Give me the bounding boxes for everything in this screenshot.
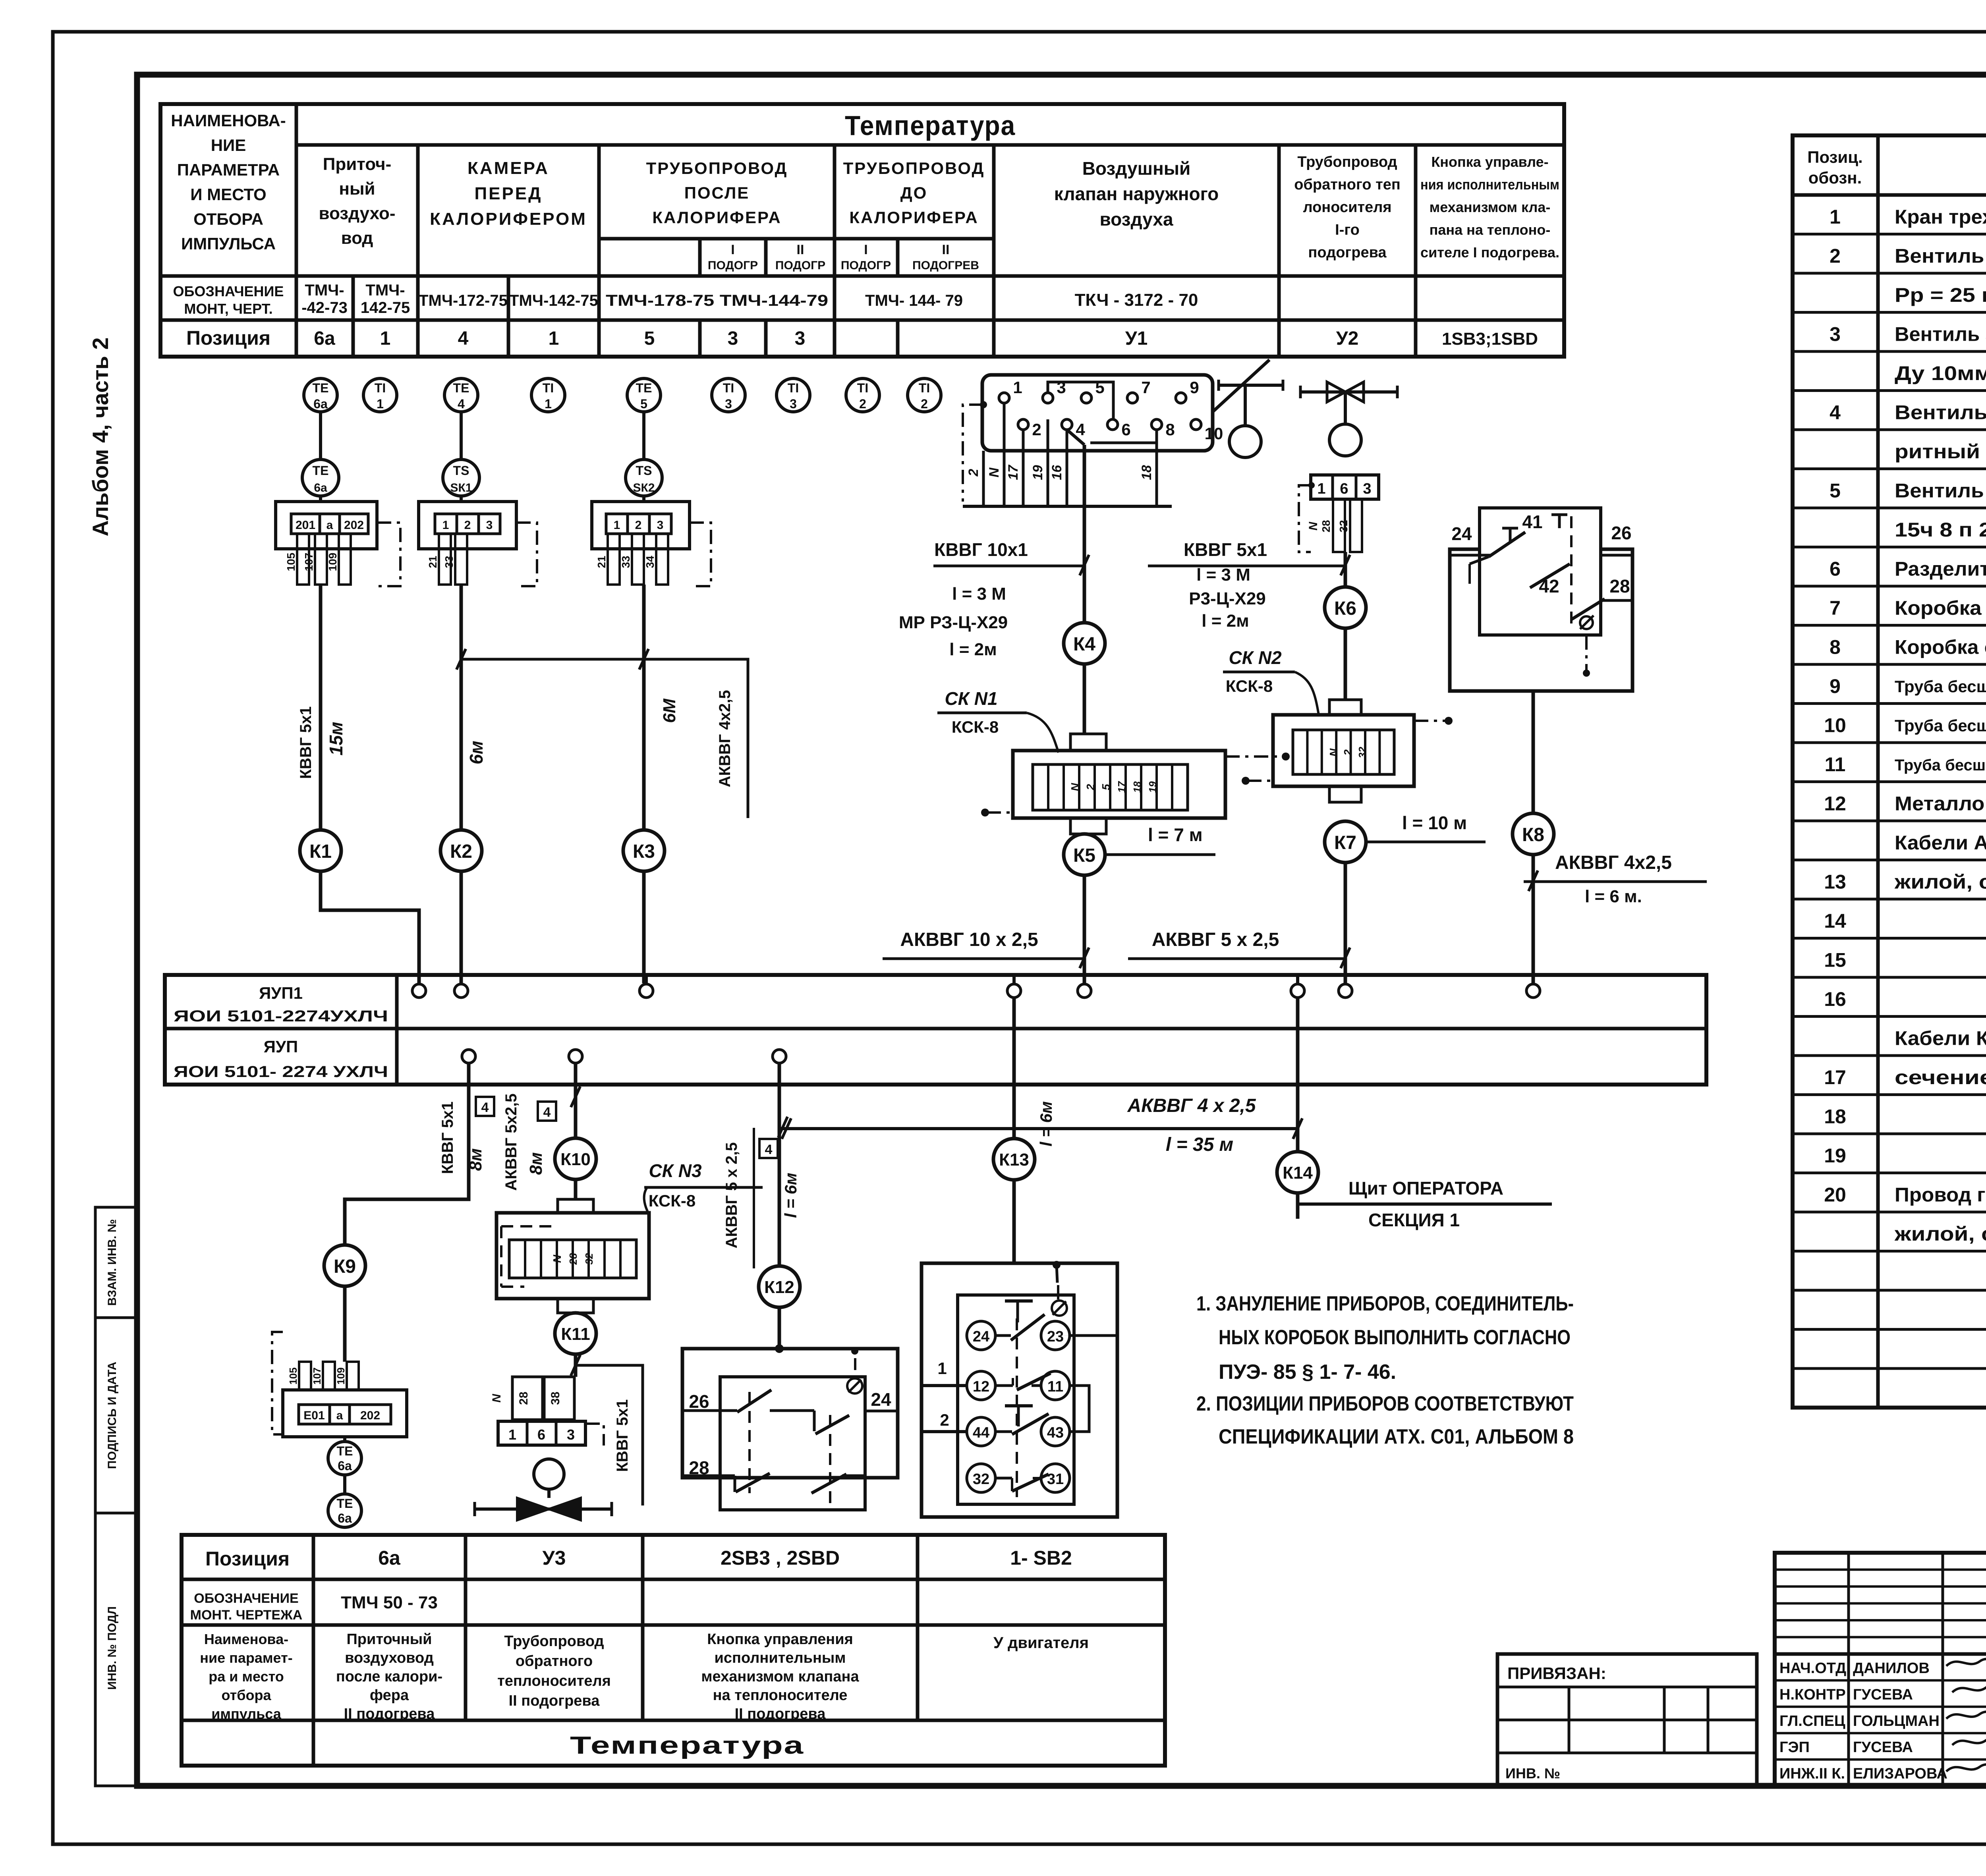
svg-text:l = 6м: l = 6м bbox=[1037, 1101, 1055, 1146]
cable circle K7 bbox=[1325, 821, 1366, 863]
svg-text:11: 11 bbox=[1825, 753, 1846, 776]
svg-text:4: 4 bbox=[1830, 401, 1841, 424]
svg-text:И МЕСТО: И МЕСТО bbox=[190, 185, 266, 204]
svg-text:8: 8 bbox=[1830, 636, 1841, 658]
svg-text:N: N bbox=[987, 467, 1002, 477]
svg-text:N: N bbox=[1069, 783, 1081, 791]
svg-text:1: 1 bbox=[545, 397, 552, 411]
svg-text:107: 107 bbox=[303, 553, 315, 571]
instrument ТI-1 bbox=[363, 378, 397, 412]
valve actuator circle bbox=[1329, 424, 1361, 456]
junction box SK N3 bbox=[558, 1199, 593, 1213]
svg-text:6а: 6а bbox=[313, 397, 328, 411]
svg-text:Приточ-: Приточ- bbox=[323, 154, 392, 174]
contact pin lines K8 box bbox=[1450, 554, 1490, 557]
svg-text:3: 3 bbox=[790, 397, 797, 411]
svg-text:КСК-8: КСК-8 bbox=[1226, 677, 1273, 695]
svg-text:ТI: ТI bbox=[919, 381, 930, 395]
svg-text:ТЕ: ТЕ bbox=[337, 1496, 353, 1511]
svg-text:воздухо-: воздухо- bbox=[319, 204, 395, 223]
svg-text:24: 24 bbox=[871, 1389, 891, 1410]
svg-text:Трубопровод: Трубопровод bbox=[1297, 154, 1397, 170]
instrument ТI-1 bbox=[531, 378, 565, 412]
transmitter ТS-SК2 bbox=[626, 459, 662, 496]
svg-text:ИНЖ.II К.: ИНЖ.II К. bbox=[1779, 1766, 1845, 1782]
svg-text:33: 33 bbox=[620, 556, 632, 568]
instrument ТЕ-5 bbox=[627, 378, 661, 412]
svg-text:ЕЛИЗАРОВА: ЕЛИЗАРОВА bbox=[1853, 1766, 1947, 1782]
instrument ТЕ-4 bbox=[444, 378, 478, 412]
svg-text:6а: 6а bbox=[314, 328, 335, 349]
svg-text:ТS: ТS bbox=[636, 463, 652, 478]
svg-text:11: 11 bbox=[1047, 1378, 1063, 1395]
svg-text:Коробка соединительная КСК-: Коробка соединительная КСК-16. bbox=[1895, 636, 1986, 658]
specification table grid bbox=[1793, 135, 1986, 1408]
cable circle K2 bbox=[440, 830, 482, 871]
svg-text:1SB3;1SBD: 1SB3;1SBD bbox=[1442, 329, 1538, 349]
svg-text:АКВВГ 4х2,5: АКВВГ 4х2,5 bbox=[716, 690, 734, 787]
cable link to operator panel bbox=[779, 1127, 1298, 1130]
title block attach table bbox=[1497, 1654, 1757, 1786]
svg-text:КАЛОРИФЕРА: КАЛОРИФЕРА bbox=[849, 208, 978, 227]
svg-text:201: 201 bbox=[296, 519, 315, 532]
svg-text:НАИМЕНОВА-: НАИМЕНОВА- bbox=[171, 111, 286, 130]
svg-text:12: 12 bbox=[973, 1378, 989, 1395]
svg-text:15ч 8 п 2.: 15ч 8 п 2. bbox=[1895, 519, 1986, 541]
svg-text:12: 12 bbox=[1824, 793, 1846, 815]
svg-text:К14: К14 bbox=[1283, 1163, 1313, 1183]
svg-text:9: 9 bbox=[1830, 675, 1841, 697]
svg-text:14: 14 bbox=[1824, 910, 1846, 932]
pushbutton contact box (K8 chain) bbox=[1450, 549, 1632, 691]
svg-text:4: 4 bbox=[458, 397, 465, 411]
svg-text:N: N bbox=[1327, 748, 1340, 757]
wire K7 to panel bbox=[1344, 863, 1347, 983]
svg-text:19: 19 bbox=[1030, 465, 1045, 480]
cable circle K9 bbox=[324, 1245, 365, 1286]
svg-text:ТМЧ-172-75: ТМЧ-172-75 bbox=[419, 292, 508, 309]
panel bus box bbox=[165, 975, 1706, 1085]
svg-text:2: 2 bbox=[1032, 420, 1041, 439]
cable circle K6 bbox=[1325, 587, 1366, 628]
svg-text:Кнопка управления: Кнопка управления bbox=[707, 1631, 853, 1648]
svg-text:17: 17 bbox=[1116, 781, 1128, 793]
svg-text:ПОДОГР: ПОДОГР bbox=[775, 259, 825, 272]
svg-text:6: 6 bbox=[1340, 481, 1348, 497]
wire number square K9 bbox=[476, 1097, 494, 1116]
instrument ТI-2 bbox=[908, 378, 941, 412]
svg-text:Ду 10мм, Рр = 1кгс/см², 156: Ду 10мм, Рр = 1кгс/см², 15650р -3М bbox=[1895, 362, 1986, 384]
svg-text:5: 5 bbox=[1830, 480, 1841, 502]
svg-text:У двигателя: У двигателя bbox=[993, 1634, 1089, 1652]
svg-text:Разделитель мембранный РМ531: Разделитель мембранный РМ5319, bbox=[1895, 558, 1986, 580]
svg-text:7: 7 bbox=[1141, 378, 1150, 397]
svg-text:клапан наружного: клапан наружного bbox=[1054, 183, 1219, 204]
svg-text:ра и место: ра и место bbox=[209, 1668, 284, 1685]
svg-text:ПОДОГРЕВ: ПОДОГРЕВ bbox=[912, 259, 979, 272]
svg-text:ЯОИ 5101- 2274 УХЛЧ: ЯОИ 5101- 2274 УХЛЧ bbox=[174, 1063, 388, 1081]
svg-text:ТI: ТI bbox=[375, 381, 386, 395]
svg-text:105: 105 bbox=[285, 553, 297, 571]
circled pins K13 box bbox=[967, 1321, 995, 1350]
wire K4 bbox=[1083, 445, 1086, 623]
wire K10 chain from panel bbox=[574, 1063, 578, 1138]
svg-text:142-75: 142-75 bbox=[361, 299, 410, 317]
svg-text:К12: К12 bbox=[764, 1278, 794, 1297]
svg-text:1: 1 bbox=[377, 397, 384, 411]
svg-text:К8: К8 bbox=[1522, 824, 1544, 845]
svg-text:К2: К2 bbox=[450, 841, 472, 862]
svg-text:24: 24 bbox=[1451, 523, 1472, 544]
svg-text:21: 21 bbox=[427, 556, 439, 568]
svg-text:1: 1 bbox=[508, 1426, 516, 1443]
svg-text:2. ПОЗИЦИИ ПРИБОРОВ СООТВЕТ: 2. ПОЗИЦИИ ПРИБОРОВ СООТВЕТСТВУЮТ bbox=[1196, 1392, 1574, 1415]
svg-text:ния исполнительным: ния исполнительным bbox=[1420, 176, 1559, 193]
svg-text:4: 4 bbox=[1076, 420, 1085, 439]
cable circle K10 bbox=[555, 1138, 596, 1179]
svg-text:ТЕ: ТЕ bbox=[313, 381, 329, 395]
svg-text:К1: К1 bbox=[309, 841, 332, 862]
K13 box right links bbox=[1070, 1334, 1117, 1337]
svg-text:Температура: Температура bbox=[845, 110, 1016, 141]
svg-text:26: 26 bbox=[689, 1391, 709, 1412]
svg-text:1: 1 bbox=[549, 328, 559, 349]
svg-text:ПЕРЕД: ПЕРЕД bbox=[474, 184, 542, 203]
svg-text:l = 7 м: l = 7 м bbox=[1148, 824, 1203, 845]
svg-text:II подогрева: II подогрева bbox=[344, 1706, 435, 1722]
svg-text:l = 2м: l = 2м bbox=[949, 640, 997, 659]
svg-text:6а: 6а bbox=[378, 1547, 401, 1569]
svg-text:ОТБОРА: ОТБОРА bbox=[193, 210, 263, 228]
svg-text:2: 2 bbox=[921, 397, 928, 411]
svg-text:ВЗАМ. ИНВ. №: ВЗАМ. ИНВ. № bbox=[106, 1219, 119, 1306]
svg-text:I: I bbox=[731, 242, 734, 257]
svg-text:ГОЛЬЦМАН: ГОЛЬЦМАН bbox=[1853, 1713, 1940, 1729]
svg-text:2: 2 bbox=[464, 519, 471, 532]
svg-text:обратного теп: обратного теп bbox=[1294, 176, 1401, 193]
svg-text:АКВВГ 5 х 2,5: АКВВГ 5 х 2,5 bbox=[1152, 929, 1279, 950]
svg-text:обозн.: обозн. bbox=[1808, 168, 1862, 187]
svg-text:АКВВГ 4х2,5: АКВВГ 4х2,5 bbox=[1555, 852, 1672, 873]
svg-text:I-го: I-го bbox=[1335, 222, 1360, 238]
earth circle in K8 box bbox=[1580, 616, 1593, 629]
bottom parameter table grid bbox=[182, 1535, 1165, 1766]
svg-text:6: 6 bbox=[1830, 558, 1841, 580]
svg-text:33: 33 bbox=[443, 556, 455, 568]
instrument ТI-3 bbox=[712, 378, 745, 412]
svg-text:109: 109 bbox=[326, 553, 339, 571]
svg-text:6а: 6а bbox=[338, 1459, 352, 1473]
svg-text:5: 5 bbox=[644, 328, 655, 349]
svg-text:ПОСЛЕ: ПОСЛЕ bbox=[684, 183, 750, 202]
svg-text:4: 4 bbox=[481, 1100, 489, 1115]
svg-text:6а: 6а bbox=[314, 481, 327, 494]
cable circle K13 bbox=[993, 1139, 1035, 1180]
svg-text:Кнопка управле-: Кнопка управле- bbox=[1431, 154, 1548, 170]
svg-text:Позиция: Позиция bbox=[205, 1548, 290, 1570]
svg-text:КСК-8: КСК-8 bbox=[952, 718, 999, 736]
svg-text:32: 32 bbox=[583, 1253, 595, 1264]
sensor TE-6a lower 2 bbox=[343, 1475, 346, 1494]
svg-text:32: 32 bbox=[973, 1471, 989, 1488]
svg-text:импульса: импульса bbox=[211, 1706, 282, 1722]
svg-text:АКВВГ 10 х 2,5: АКВВГ 10 х 2,5 bbox=[900, 929, 1038, 950]
svg-text:КВВГ 5х1: КВВГ 5х1 bbox=[1184, 539, 1267, 560]
svg-text:10: 10 bbox=[1824, 714, 1846, 737]
cable circle K3 bbox=[623, 830, 665, 871]
svg-text:КСК-8: КСК-8 bbox=[649, 1191, 695, 1210]
contact symbols K13 box bbox=[1016, 1318, 1018, 1497]
svg-text:17: 17 bbox=[1824, 1066, 1846, 1089]
svg-text:l = 6м: l = 6м bbox=[781, 1173, 800, 1218]
svg-text:У1: У1 bbox=[1125, 328, 1148, 349]
svg-text:СПЕЦИФИКАЦИИ АТХ. С01, АЛЬБ: СПЕЦИФИКАЦИИ АТХ. С01, АЛЬБОМ 8 bbox=[1219, 1425, 1574, 1448]
svg-text:КВВГ 10х1: КВВГ 10х1 bbox=[934, 539, 1028, 560]
svg-text:II подогрева: II подогрева bbox=[509, 1693, 600, 1709]
svg-text:исполнительным: исполнительным bbox=[715, 1650, 846, 1666]
svg-text:воздуха: воздуха bbox=[1099, 209, 1173, 230]
svg-text:ПРИВЯЗАН:: ПРИВЯЗАН: bbox=[1507, 1664, 1606, 1683]
svg-text:ТЕ: ТЕ bbox=[453, 381, 469, 395]
svg-text:К3: К3 bbox=[633, 841, 655, 862]
svg-text:20: 20 bbox=[1824, 1184, 1846, 1206]
svg-text:Кабели АКВВГ ГОСТ1508-78Е с а: Кабели АКВВГ ГОСТ1508-78Е с алюминиевой bbox=[1895, 832, 1986, 854]
terminal box XT2 bbox=[419, 502, 516, 549]
svg-text:КАМЕРА: КАМЕРА bbox=[468, 158, 549, 178]
svg-text:ЯОИ 5101-2274УХЛЧ: ЯОИ 5101-2274УХЛЧ bbox=[174, 1007, 388, 1025]
earth circle 26-28 box bbox=[847, 1378, 862, 1393]
cable circle K4 bbox=[1064, 623, 1105, 664]
svg-text:2: 2 bbox=[1084, 784, 1097, 791]
svg-text:1: 1 bbox=[1013, 378, 1022, 397]
svg-text:ОБОЗНАЧЕНИЕ: ОБОЗНАЧЕНИЕ bbox=[173, 283, 284, 299]
instrument ТI-3 bbox=[777, 378, 810, 412]
svg-text:МОНТ, ЧЕРТ.: МОНТ, ЧЕРТ. bbox=[184, 301, 272, 317]
wire bundle under pin box bbox=[982, 451, 985, 506]
svg-text:ТS: ТS bbox=[453, 463, 469, 478]
svg-text:воздуховод: воздуховод bbox=[345, 1650, 434, 1666]
bus row1 connection circles bbox=[417, 975, 421, 984]
svg-text:сителе I подогрева.: сителе I подогрева. bbox=[1420, 244, 1559, 261]
svg-text:26: 26 bbox=[1611, 523, 1631, 543]
svg-text:19: 19 bbox=[1824, 1145, 1846, 1167]
svg-text:а: а bbox=[326, 519, 333, 532]
pushbutton contact box K13 bbox=[922, 1263, 1117, 1517]
svg-text:НЫХ КОРОБОК ВЫПОЛНИТЬ СО: НЫХ КОРОБОК ВЫПОЛНИТЬ СОГЛАСНО bbox=[1219, 1326, 1571, 1349]
svg-text:ГУСЕВА: ГУСЕВА bbox=[1853, 1739, 1913, 1756]
wire K5 to panel bbox=[1083, 875, 1086, 983]
svg-text:ТКЧ - 3172 - 70: ТКЧ - 3172 - 70 bbox=[1075, 290, 1198, 310]
svg-text:ТЕ: ТЕ bbox=[636, 381, 652, 395]
svg-text:28: 28 bbox=[517, 1392, 530, 1405]
svg-text:Трубопровод: Трубопровод bbox=[504, 1633, 604, 1650]
svg-text:13: 13 bbox=[1824, 871, 1846, 893]
svg-text:15м: 15м bbox=[326, 722, 346, 755]
svg-text:ГЛ.СПЕЦ: ГЛ.СПЕЦ bbox=[1779, 1713, 1845, 1729]
svg-text:28: 28 bbox=[1609, 576, 1630, 596]
wire K12 chain from panel bbox=[778, 1063, 781, 1266]
svg-text:18: 18 bbox=[1139, 465, 1154, 480]
svg-text:II: II bbox=[797, 242, 804, 257]
svg-text:ТI: ТI bbox=[857, 381, 868, 395]
svg-text:l = 2м: l = 2м bbox=[1202, 611, 1249, 631]
wire K3 chain bbox=[642, 585, 646, 830]
svg-text:l = 10 м: l = 10 м bbox=[1402, 813, 1467, 833]
svg-text:после калори-: после калори- bbox=[336, 1668, 442, 1685]
valve damper symbol bbox=[1219, 384, 1283, 387]
svg-text:пана на теплоно-: пана на теплоно- bbox=[1430, 222, 1551, 238]
svg-text:4: 4 bbox=[458, 328, 469, 349]
svg-text:У2: У2 bbox=[1336, 328, 1359, 349]
svg-text:3: 3 bbox=[728, 328, 738, 349]
wire number square K12 bbox=[759, 1139, 778, 1158]
svg-text:СК N3: СК N3 bbox=[649, 1160, 701, 1181]
svg-text:1: 1 bbox=[614, 519, 620, 532]
svg-text:32: 32 bbox=[1337, 520, 1350, 532]
top parameter table grid bbox=[160, 104, 1564, 357]
svg-text:Труба бесшовная: Труба бесшовная bbox=[1895, 677, 1986, 696]
svg-text:5: 5 bbox=[1100, 784, 1112, 790]
svg-text:Р3-Ц-Х29: Р3-Ц-Х29 bbox=[1189, 589, 1266, 608]
svg-text:41: 41 bbox=[1522, 511, 1542, 532]
cable circle K5 bbox=[1064, 834, 1105, 875]
svg-text:Коробка соединительная КСК-8: Коробка соединительная КСК-8, bbox=[1895, 597, 1986, 619]
stems between instrument rows bbox=[319, 412, 322, 459]
svg-text:II: II bbox=[942, 242, 950, 257]
svg-text:КВВГ 5х1: КВВГ 5х1 bbox=[614, 1399, 631, 1472]
bus row2 connection circles bbox=[462, 1050, 475, 1063]
svg-text:1- SB2: 1- SB2 bbox=[1010, 1547, 1072, 1569]
wire K8 bbox=[1532, 691, 1535, 813]
svg-text:Воздушный: Воздушный bbox=[1082, 158, 1191, 179]
svg-text:18: 18 bbox=[1131, 781, 1143, 793]
svg-text:ТМЧ- 144- 79: ТМЧ- 144- 79 bbox=[865, 292, 963, 309]
svg-text:ГУСЕВА: ГУСЕВА bbox=[1853, 1686, 1913, 1703]
svg-text:СЕКЦИЯ 1: СЕКЦИЯ 1 bbox=[1368, 1210, 1460, 1230]
svg-text:ПАРАМЕТРА: ПАРАМЕТРА bbox=[177, 160, 280, 179]
svg-text:НИЕ: НИЕ bbox=[211, 136, 246, 154]
svg-text:19: 19 bbox=[1147, 781, 1159, 793]
svg-text:теплоносителя: теплоносителя bbox=[497, 1673, 611, 1689]
svg-text:ГЭП: ГЭП bbox=[1779, 1739, 1810, 1756]
svg-text:2: 2 bbox=[966, 469, 981, 477]
svg-text:3: 3 bbox=[486, 519, 493, 532]
svg-text:Позиц.: Позиц. bbox=[1807, 148, 1862, 166]
actuator pin box bbox=[982, 375, 1213, 451]
svg-text:6: 6 bbox=[537, 1426, 545, 1443]
svg-text:Кран трехходовой муфтовый 14М1: Кран трехходовой муфтовый 14М1 Ду -15мм. bbox=[1895, 206, 1986, 228]
svg-text:К6: К6 bbox=[1334, 598, 1356, 619]
svg-text:механизмом клапана: механизмом клапана bbox=[701, 1668, 859, 1685]
svg-text:18: 18 bbox=[1824, 1106, 1846, 1128]
svg-text:32: 32 bbox=[1356, 747, 1368, 758]
svg-text:43: 43 bbox=[1047, 1424, 1064, 1441]
svg-text:l = 3 М: l = 3 М bbox=[952, 584, 1006, 604]
svg-text:Щит ОПЕРАТОРА: Щит ОПЕРАТОРА bbox=[1348, 1178, 1503, 1199]
svg-text:3: 3 bbox=[657, 519, 664, 532]
svg-text:8: 8 bbox=[1165, 420, 1175, 439]
junction box SK N2 bbox=[1329, 700, 1361, 715]
terminal box 1-6-3 (K6 chain) bbox=[1311, 475, 1379, 499]
svg-text:202: 202 bbox=[360, 1409, 380, 1422]
svg-text:3: 3 bbox=[725, 397, 732, 411]
svg-text:СК N1: СК N1 bbox=[945, 688, 997, 709]
svg-text:ПУЭ- 85 § 1- 7- 46.: ПУЭ- 85 § 1- 7- 46. bbox=[1219, 1361, 1396, 1384]
cable circle K8 bbox=[1513, 813, 1554, 855]
contact symbols in K8 box bbox=[1570, 516, 1573, 631]
svg-text:механизмом кла-: механизмом кла- bbox=[1430, 199, 1551, 215]
svg-text:ПОДОГР: ПОДОГР bbox=[708, 259, 758, 272]
sensor TE-6a lower 1 bbox=[343, 1437, 346, 1442]
svg-text:Позиция: Позиция bbox=[186, 327, 270, 349]
svg-text:ТМЧ-178-75 ТМЧ-144-79: ТМЧ-178-75 ТМЧ-144-79 bbox=[606, 292, 828, 309]
svg-text:ТЕ: ТЕ bbox=[337, 1444, 353, 1458]
contact symbols 26-28 box bbox=[748, 1392, 751, 1493]
svg-text:4: 4 bbox=[765, 1142, 773, 1157]
svg-text:1: 1 bbox=[937, 1359, 947, 1378]
svg-text:обратного: обратного bbox=[516, 1653, 593, 1669]
svg-text:31: 31 bbox=[1047, 1471, 1064, 1488]
svg-text:202: 202 bbox=[344, 519, 364, 532]
svg-text:2: 2 bbox=[1342, 749, 1354, 756]
wire K1 to panel bbox=[321, 871, 419, 983]
svg-text:28: 28 bbox=[567, 1253, 579, 1265]
svg-text:28: 28 bbox=[1320, 520, 1332, 532]
svg-text:К5: К5 bbox=[1073, 845, 1095, 866]
svg-text:ТЕ: ТЕ bbox=[313, 463, 329, 478]
svg-text:24: 24 bbox=[973, 1328, 989, 1345]
svg-text:ТРУБОПРОВОД: ТРУБОПРОВОД bbox=[843, 159, 985, 178]
svg-text:К4: К4 bbox=[1073, 634, 1095, 655]
svg-text:лоносителя: лоносителя bbox=[1303, 199, 1391, 216]
svg-text:ДО: ДО bbox=[900, 183, 928, 202]
svg-text:У3: У3 bbox=[543, 1547, 566, 1569]
svg-text:подогрева: подогрева bbox=[1308, 244, 1387, 261]
svg-text:ИНВ. № ПОДЛ: ИНВ. № ПОДЛ bbox=[106, 1606, 119, 1690]
wire K9 chain from panel bbox=[345, 1063, 469, 1245]
svg-text:SК2: SК2 bbox=[633, 481, 655, 494]
svg-text:2SB3 , 2SBD: 2SB3 , 2SBD bbox=[721, 1547, 840, 1569]
svg-text:105: 105 bbox=[287, 1367, 299, 1384]
terminal box XT4 bbox=[299, 1362, 311, 1390]
svg-text:4: 4 bbox=[543, 1105, 551, 1120]
svg-text:II подогрева: II подогрева bbox=[735, 1706, 826, 1722]
svg-text:34: 34 bbox=[644, 556, 656, 568]
svg-text:Вентиль запорный сильфонный в: Вентиль запорный сильфонный вакуумный bbox=[1895, 323, 1986, 345]
transmitter ТЕ-6а bbox=[302, 459, 339, 496]
svg-text:на теплоносителе: на теплоносителе bbox=[713, 1687, 848, 1704]
svg-text:16: 16 bbox=[1824, 988, 1846, 1010]
svg-text:Вентиль запорный муфтовый м: Вентиль запорный муфтовый малогаба- bbox=[1895, 401, 1986, 424]
svg-text:3: 3 bbox=[1830, 323, 1841, 345]
svg-text:КАЛОРИФЕРОМ: КАЛОРИФЕРОМ bbox=[430, 209, 587, 229]
svg-text:Труба бесшовная: Труба бесшовная bbox=[1895, 757, 1986, 774]
svg-text:15: 15 bbox=[1824, 949, 1846, 971]
svg-text:ИМПУЛЬСА: ИМПУЛЬСА bbox=[181, 234, 276, 253]
svg-text:38: 38 bbox=[549, 1392, 562, 1405]
svg-text:1: 1 bbox=[380, 328, 391, 349]
svg-text:ОБОЗНАЧЕНИЕ: ОБОЗНАЧЕНИЕ bbox=[194, 1591, 298, 1606]
svg-text:1: 1 bbox=[1830, 206, 1841, 228]
svg-text:отбора: отбора bbox=[222, 1687, 272, 1703]
svg-text:5: 5 bbox=[640, 397, 647, 411]
svg-text:сечением: 4 х 1 кв, мм,: сечением: 4 х 1 кв, мм, bbox=[1895, 1066, 1986, 1089]
svg-text:ТI: ТI bbox=[543, 381, 554, 395]
svg-text:Наименова-: Наименова- bbox=[204, 1631, 288, 1647]
earth circle K13 box bbox=[1053, 1261, 1061, 1269]
svg-text:ный: ный bbox=[339, 179, 375, 199]
cable circle K1 bbox=[300, 830, 341, 871]
